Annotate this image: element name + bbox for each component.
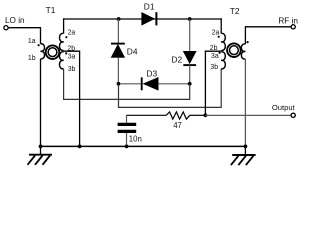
- transformer T2: [210, 6, 249, 71]
- T2 primary winding (RF): [241, 44, 245, 59]
- svg-text:3a: 3a: [211, 53, 219, 60]
- diode D4: [111, 44, 138, 58]
- diode D1: [142, 1, 157, 25]
- RF winding dot: [247, 41, 249, 43]
- node 1a dot: [38, 44, 40, 46]
- node D junction dot: [117, 82, 121, 86]
- capacitor C1 10n: [118, 115, 142, 146]
- diode D2: [171, 51, 196, 65]
- svg-text:RF in: RF in: [278, 17, 298, 26]
- wire T1 center tap to ground rail: [64, 51, 80, 146]
- ground symbol left: [28, 146, 53, 164]
- RF in terminal: [278, 17, 298, 29]
- svg-text:3b: 3b: [210, 64, 218, 71]
- svg-text:3b: 3b: [68, 66, 76, 73]
- svg-text:2a: 2a: [68, 30, 76, 37]
- junction dot T2 primary/rail: [244, 145, 248, 149]
- T1 secondary winding 2a-2b: [59, 33, 63, 50]
- LO in terminal: [4, 16, 25, 30]
- node 2a dot: [218, 36, 220, 38]
- wire to Output terminal: [205, 114, 291, 116]
- wire D4 anode down to node D: [117, 57, 119, 83]
- svg-text:T2: T2: [230, 6, 240, 16]
- node A junction dot: [117, 17, 121, 21]
- ground rail: [41, 145, 246, 147]
- wire T2 primary bottom to ground rail: [244, 59, 246, 146]
- svg-text:2a: 2a: [212, 30, 220, 37]
- svg-text:Output: Output: [272, 103, 296, 112]
- svg-text:3a: 3a: [68, 53, 76, 60]
- wire D2 cathode down to node C: [189, 65, 191, 84]
- wire node D to T2 3b: [119, 69, 222, 108]
- wire node B down to D2: [189, 19, 191, 51]
- svg-text:D4: D4: [127, 46, 138, 56]
- T1 primary winding 1a-1b: [41, 44, 45, 59]
- node 3a dot: [65, 52, 67, 54]
- T2 secondary winding 3a-3b: [221, 52, 225, 69]
- junction dot T1 primary/rail: [39, 145, 43, 149]
- wire T1 secondary top to top rail: [63, 18, 65, 33]
- wire T2 secondary top to top rail: [220, 18, 222, 33]
- svg-text:47: 47: [173, 121, 182, 130]
- wire RF in to T2 primary: [245, 27, 291, 44]
- T1 core: [46, 45, 60, 59]
- wire T1 primary bottom to ground rail: [40, 59, 42, 147]
- svg-text:1a: 1a: [28, 38, 36, 45]
- node 3a dot: [219, 52, 221, 54]
- junction dot T1 tap/rail: [78, 145, 82, 149]
- wire LO to T1 primary: [8, 28, 40, 44]
- node B junction dot: [188, 17, 192, 21]
- transformer T1: [28, 5, 76, 73]
- Output terminal: [272, 103, 296, 118]
- ground symbol right: [231, 146, 256, 165]
- junction dot cap/rail: [125, 145, 129, 149]
- svg-text:T1: T1: [46, 5, 56, 15]
- svg-text:10n: 10n: [129, 135, 142, 144]
- node 2a dot: [65, 36, 67, 38]
- wire node A down to D4: [117, 19, 119, 43]
- svg-text:LO in: LO in: [5, 16, 25, 25]
- svg-text:D3: D3: [146, 68, 157, 78]
- svg-text:1b: 1b: [28, 55, 36, 62]
- diode D3: [120, 68, 189, 90]
- svg-text:D2: D2: [171, 55, 182, 65]
- resistor R1 47: [127, 112, 206, 130]
- svg-text:D1: D1: [144, 1, 155, 11]
- T2 secondary winding 2a-2b: [221, 33, 225, 50]
- wire T1 3b to node C: [64, 69, 190, 100]
- wire T2 center tap to output node: [205, 51, 221, 115]
- wire top rail: [63, 18, 222, 20]
- node C junction dot: [188, 82, 192, 86]
- output junction dot: [204, 113, 208, 117]
- T1 secondary winding 3a-3b: [59, 52, 63, 69]
- T2 core: [227, 43, 241, 57]
